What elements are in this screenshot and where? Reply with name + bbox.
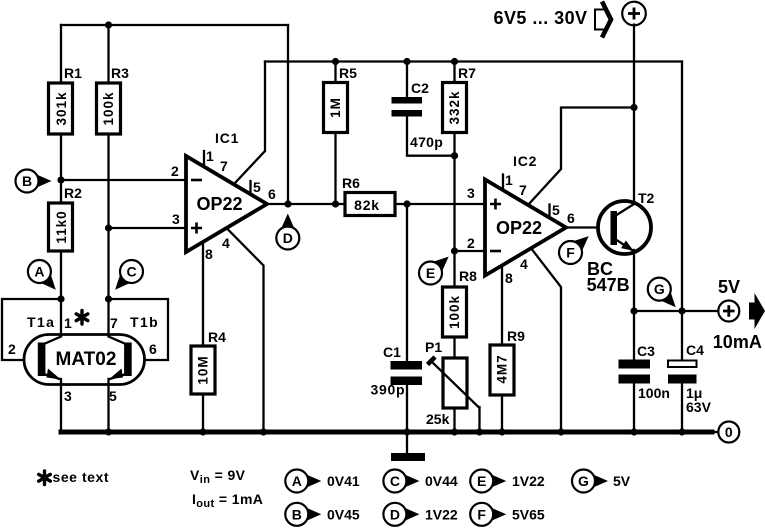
svg-text:D: D [283,230,293,246]
svg-text:5: 5 [109,388,117,404]
resistor R7 [443,65,477,133]
IC2 plus input symbol [490,199,501,210]
wire R1 bottom to node B [60,134,62,203]
svg-text:P1: P1 [425,339,442,355]
op-amp IC2 OP22 [467,153,575,286]
wire rail down to R5 [334,62,336,83]
svg-text:C1: C1 [383,344,401,360]
+V input terminal [622,2,646,26]
svg-text:5V: 5V [718,277,740,297]
resistor R4 [191,329,226,394]
svg-text:0: 0 [725,424,733,440]
IC2 pin 5 tick [548,205,550,218]
wire R2 bottom to node A [60,251,62,299]
svg-text:1V22: 1V22 [512,473,545,489]
node D junction [284,200,291,207]
svg-text:R2: R2 [64,185,82,201]
node junction rail C1 [403,428,410,435]
wire vertical from top rail down to R3 [107,25,109,83]
wire node A down into T1a collector (pin 1) [60,299,62,337]
supply input arrow symbol [595,2,611,38]
wire node E down to R8 [453,251,455,287]
svg-text:0V44: 0V44 [425,473,458,489]
svg-text:IC1: IC1 [215,130,239,146]
node junction C4 / bootstrap rail [678,307,685,314]
svg-text:B: B [292,506,302,522]
svg-text:3: 3 [172,211,180,227]
svg-text:OP22: OP22 [496,218,542,238]
svg-text:C: C [126,264,136,280]
node junction R5 top [332,58,339,65]
svg-text:5V: 5V [613,473,631,489]
wire +V terminal down to T2 collector [633,25,635,205]
legend balloon B 0V45 [285,503,360,526]
svg-text:8: 8 [205,246,213,262]
potentiometer P1 [425,339,479,427]
svg-text:470p: 470p [410,134,443,150]
svg-text:100n: 100n [638,385,670,401]
node junction top rail / R3 [105,21,112,28]
balloon G [648,278,676,308]
P1 wiper tip bar [428,357,436,365]
svg-text:R3: R3 [111,65,129,81]
svg-text:4M7: 4M7 [495,354,510,383]
P1 wiper diagonal [433,363,480,408]
svg-text:F: F [477,506,486,522]
wire R5 bottom to output node [334,133,336,205]
T2 collector diagonal [617,204,635,215]
svg-text:6: 6 [149,341,157,357]
wire R3 bottom down through pin3 tap to node C [107,134,109,299]
node junction rail T1a pin3 [105,428,112,435]
svg-text:T1a: T1a [27,314,55,330]
wire P1 bottom to 0V rail [453,408,455,432]
wire IC2 pin 7 to +V node [528,108,634,206]
svg-text:3: 3 [64,388,72,404]
svg-text:1M: 1M [328,97,343,118]
T2 base bar [611,211,618,245]
wire T2 emitter down to node G [633,250,635,311]
svg-text:4: 4 [222,235,230,251]
node junction rail C4 [678,428,685,435]
svg-text:7: 7 [220,158,228,174]
svg-text:see text: see text [53,469,110,485]
svg-text:D: D [390,506,400,522]
node A junction [57,295,64,302]
svg-text:4: 4 [520,256,528,272]
wire R7 bottom down to node E (crosses output wire) [453,133,455,252]
svg-text:1V22: 1V22 [425,506,458,522]
wire IC1 pin 4 to 0V rail [228,230,264,433]
wire node G horizontal to 5V terminal [634,310,718,312]
svg-text:F: F [566,245,575,261]
wire R4 bottom to 0V rail [202,394,204,432]
wire 5V supply rail (y=61.5) from IC1 pin7 to right side [265,60,682,62]
svg-text:2: 2 [171,163,179,179]
node junction R7 top [451,58,458,65]
capacitor C3 [619,311,670,401]
T1a base bar [38,343,46,377]
balloon F [559,236,589,264]
svg-text:R9: R9 [507,328,525,344]
svg-text:5: 5 [253,179,261,195]
svg-text:T2: T2 [638,190,655,206]
wire vertical from top rail down to R1 [60,25,62,83]
node junction T2 emitter / C3 [630,307,637,314]
resistor R2 [49,185,83,251]
svg-text:390p: 390p [371,382,406,398]
wire IC2 pin 4 to 0V rail [532,250,561,433]
legend balloon F 5V65 [470,503,545,526]
svg-text:6V5 ... 30V: 6V5 ... 30V [494,8,588,28]
wire P1 wiper to 0V rail [478,407,480,432]
svg-text:C: C [390,473,400,489]
wire node E to IC2 pin 2 [455,250,486,252]
wire top feedback rail from R1/R3 tops to node D vertical [61,24,288,26]
node junction rail IC2 pin4 [557,428,564,435]
svg-text:547B: 547B [587,275,630,295]
T1a collector diagonal [45,337,61,344]
svg-text:OP22: OP22 [196,194,242,214]
svg-text:63V: 63V [686,399,712,415]
svg-text:R7: R7 [458,65,476,81]
0V bottom rail [61,430,712,435]
wire IC2 output to T2 base [566,226,612,228]
svg-text:11k0: 11k0 [54,210,69,243]
IC1 plus input symbol [191,223,202,234]
svg-text:2: 2 [8,341,16,357]
wire base loop T1a: node A to pin 2 [2,299,61,360]
legend balloon G 5V [572,470,631,493]
node junction IC2 pin7 / +V line [630,104,637,111]
svg-text:5: 5 [552,202,560,218]
svg-text:332k: 332k [447,90,462,124]
wire T1b emitter pin 5 to 0V rail [107,379,109,432]
IC1 pin 1 tick [203,151,205,167]
wire IC1 pin 7 to supply rail [234,62,265,185]
svg-text:R5: R5 [339,65,357,81]
node junction rail IC1 pin4 [260,428,267,435]
capacitor C2 [392,62,444,151]
5V output terminal [713,277,765,352]
node junction rail P1 [451,428,458,435]
svg-text:5V65: 5V65 [512,506,545,522]
wire T1a emitter pin 3 to 0V rail [60,379,62,432]
wire R6 right to IC2 pin 3 [395,203,485,205]
svg-text:E: E [426,265,435,281]
svg-text:E: E [477,473,486,489]
svg-text:R1: R1 [64,65,82,81]
svg-text:A: A [292,473,302,489]
T1b base bar [124,343,132,377]
svg-text:1: 1 [505,172,513,188]
svg-text:MAT02: MAT02 [56,349,117,370]
svg-text:6: 6 [268,186,276,202]
svg-text:10mA: 10mA [713,332,762,352]
balloon D [276,214,299,250]
wire bootstrap rail down from 5V rail to node G [681,62,683,312]
wire node B to IC1 pin 2 [61,179,186,181]
svg-text:100k: 100k [447,295,462,329]
IC1 pin 5 tick [249,181,251,194]
resistor R6 [342,175,395,216]
svg-text:C2: C2 [411,80,429,96]
T1b emitter diagonal with arrow [111,375,125,379]
node junction C2/R7 [451,152,458,159]
svg-text:3: 3 [467,185,475,201]
legend balloon E 1V22 [470,470,545,493]
svg-text:82k: 82k [354,197,380,213]
node junction rail R4 [199,428,206,435]
legend balloon C 0V44 [383,470,458,493]
svg-text:G: G [578,473,589,489]
wire R8 bottom to P1 [453,337,455,358]
svg-text:1: 1 [206,148,214,164]
svg-text:0V41: 0V41 [327,473,360,489]
svg-text:10M: 10M [196,355,211,384]
IC2 minus input symbol [490,250,501,253]
wire IC1 output to node D [267,203,345,205]
balloon E [419,257,449,285]
transistor T2 [587,190,655,295]
resistor R3 [97,65,130,134]
svg-text:R8: R8 [459,268,477,284]
ground symbol below C1 [391,434,425,461]
resistor R8 [443,268,478,337]
0V terminal [712,422,739,443]
balloon B [16,170,52,193]
balloon A [28,260,56,290]
node E junction [451,247,458,254]
svg-text:R6: R6 [342,175,360,191]
node junction C2 top [403,58,410,65]
svg-text:0V45: 0V45 [327,506,360,522]
node junction pin3 tap on R3 wire [105,224,112,231]
node C junction [105,295,112,302]
svg-text:T1b: T1b [130,314,159,330]
svg-text:6: 6 [567,210,575,226]
legend balloon D 1V22 [383,503,458,526]
svg-text:8: 8 [505,270,513,286]
IC2 pin 1 tick [502,175,504,191]
wire vertical node D to top feedback rail [287,25,289,204]
node junction rail C3 [630,428,637,435]
capacitor C1 [371,204,423,398]
legend balloon A 0V41 [285,470,360,493]
node junction rail P1 wiper [476,428,483,435]
IC1 minus input symbol [191,179,202,182]
wire node C tap to IC1 pin 3 [109,227,187,229]
svg-text:G: G [654,281,665,297]
node junction R5/output wire [332,200,339,207]
T2 emitter diagonal with arrow [617,240,633,250]
svg-text:1: 1 [64,315,72,331]
node junction C1 top [403,200,410,207]
wire R9 bottom to 0V rail [501,395,503,432]
svg-text:R4: R4 [208,329,226,345]
T1a emitter diagonal with arrow [45,375,59,379]
wire IC1 pin 8 down to R4 [202,243,204,346]
T1b collector diagonal [109,337,125,344]
wire C1 bottom to 0V rail [406,385,408,432]
svg-text:B: B [22,173,32,189]
svg-text:25k: 25k [426,411,450,427]
5V output arrow symbol [749,293,765,329]
wire base loop T1b: node C to pin 6 [109,299,169,360]
svg-text:A: A [34,264,44,280]
svg-text:2: 2 [467,235,475,251]
transistor T1a/T1b MAT02 dual [8,311,159,405]
svg-text:301k: 301k [54,91,69,125]
svg-text:C3: C3 [637,343,655,359]
node B junction [57,176,64,183]
resistor R1 [49,65,83,134]
wire node C down into T1b collector (pin 7) [107,299,109,337]
op-amp IC1 OP22 [171,130,276,262]
note: asterisk see text [39,469,109,485]
wire C4 bottom to 0V rail [681,384,683,433]
capacitor C4 electrolytic [668,311,712,415]
svg-text:7: 7 [110,315,118,331]
svg-text:C4: C4 [686,342,704,358]
wire C3 bottom to 0V rail [633,384,635,433]
resistor R5 [324,65,358,133]
wire C2 bottom to R7 bottom node [407,117,455,156]
svg-text:IC2: IC2 [513,153,537,169]
wire rail down to R7 [453,62,455,83]
svg-text:100k: 100k [101,91,116,125]
balloon C [115,260,143,290]
svg-text:7: 7 [519,182,527,198]
resistor R9 [490,328,525,395]
node junction rail R9 [498,428,505,435]
wire IC2 pin 8 down to R9 [501,266,503,346]
